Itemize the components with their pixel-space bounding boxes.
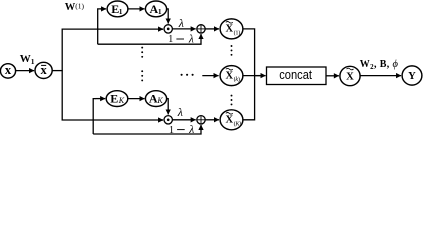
svg-text:X: X	[226, 115, 234, 126]
svg-text:1: 1	[119, 7, 123, 16]
svg-text:(1): (1)	[234, 29, 241, 36]
wire X to Xbar	[16, 70, 34, 72]
oplus bottom (sum)	[197, 116, 205, 124]
wire odot to oplus bottom	[172, 119, 195, 121]
svg-text:x: x	[5, 63, 12, 77]
node Xtilde(1)	[220, 19, 243, 39]
svg-text:X: X	[226, 24, 234, 35]
wire Xtilde(K) to right bus	[243, 76, 255, 120]
wire branch-1 vertical riser to E1	[98, 9, 101, 44]
wire branch-K vertical riser to EK	[93, 99, 96, 134]
node Y	[402, 66, 422, 85]
node Xbar	[35, 62, 52, 78]
node EK	[106, 91, 128, 107]
node Xtilde(K)	[220, 110, 243, 130]
svg-text:E: E	[110, 92, 118, 106]
svg-text:X: X	[346, 72, 354, 83]
svg-text:(k): (k)	[234, 76, 240, 83]
svg-text:(K): (K)	[234, 120, 242, 127]
oplus top (sum)	[197, 25, 205, 33]
svg-text:λ: λ	[177, 105, 183, 119]
wire 1-lambda top feed into oplus-1 from below	[98, 37, 201, 45]
svg-text:K: K	[118, 96, 125, 105]
wire Xtilde(1) to right bus	[243, 29, 255, 75]
node AK	[145, 91, 166, 107]
vdots right column upper	[231, 45, 233, 56]
odot bottom (elementwise product)	[164, 116, 172, 124]
vdots left column upper	[141, 47, 143, 58]
wire oplus to Xtilde(1)	[205, 28, 219, 30]
concat box	[267, 67, 327, 85]
arrowhead into odot top	[160, 28, 163, 30]
vdots right column lower	[231, 95, 233, 106]
svg-text:Y: Y	[408, 71, 416, 82]
svg-text:1: 1	[169, 125, 174, 136]
wire EK to AK	[128, 98, 145, 100]
svg-text:λ: λ	[188, 33, 194, 45]
svg-text:1: 1	[168, 34, 173, 45]
node X input	[0, 63, 15, 78]
wire 1-lambda bottom feed into oplus-K from below	[93, 127, 201, 134]
node A1	[145, 1, 166, 17]
svg-text:λ: λ	[188, 124, 194, 136]
svg-text:W(1): W(1)	[65, 2, 85, 14]
svg-text:λ: λ	[178, 16, 184, 30]
wire A1 down into odot top	[167, 9, 169, 21]
vdots left column lower	[141, 70, 143, 81]
wire oplus to Xtilde(K)	[205, 119, 219, 121]
svg-text:X: X	[226, 71, 234, 82]
odot top (elementwise product)	[164, 25, 172, 33]
svg-text:K: K	[156, 96, 163, 105]
wire right bus into concat	[255, 75, 263, 77]
svg-text:concat: concat	[279, 68, 312, 82]
node Xtilde	[340, 66, 360, 85]
node E1	[107, 1, 128, 17]
wire E1 to A1	[128, 8, 145, 10]
wire Xbar to bus	[52, 70, 63, 72]
arrowhead into odot bottom	[160, 119, 163, 121]
wire cdots to Xtilde(k)	[202, 75, 218, 77]
wire left bus with top and bottom feeds	[62, 29, 163, 120]
wire AK down into odot bottom	[167, 99, 169, 112]
cdots middle row	[181, 74, 194, 76]
svg-text:W1: W1	[20, 53, 35, 66]
svg-text:W2, B, ϕ: W2, B, ϕ	[360, 59, 399, 71]
svg-text:1: 1	[158, 7, 162, 16]
wire odot to oplus top	[172, 28, 195, 30]
node Xtilde(k)	[220, 66, 243, 86]
wire Xtilde to Y	[360, 75, 401, 77]
wire concat to Xtilde	[326, 75, 339, 77]
wire Xtilde(k) to concat	[243, 75, 266, 77]
